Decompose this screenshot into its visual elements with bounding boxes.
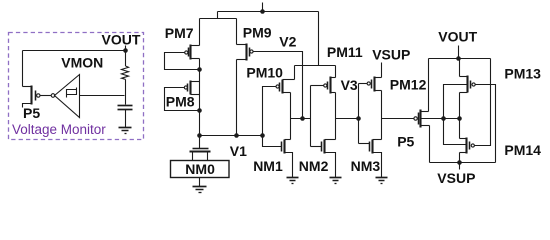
- wire: resistor to capacitor node: [125, 79, 127, 104]
- wire: V2 riser to PM11 gate / NM2 gate: [310, 86, 312, 147]
- svg-text:Voltage Monitor: Voltage Monitor: [12, 122, 106, 137]
- transistor P5 (output pass PMOS with bulk tap): [414, 110, 460, 128]
- node V1 rail: [200, 135, 263, 137]
- transistor NM2: [311, 140, 336, 178]
- transistor PM14 (mirrored, gate right): [460, 138, 475, 154]
- wire: P5 source drop: [22, 51, 24, 87]
- junction dot on top rail: [260, 9, 265, 14]
- wire: rail step down to PM7/PM9 tie: [217, 12, 219, 19]
- wire: monitor top rail: [23, 50, 126, 52]
- wire: VOUT stem to top rail (monitor): [125, 46, 127, 51]
- ground (NM1): [287, 178, 299, 184]
- svg-text:VOUT: VOUT: [102, 32, 141, 48]
- wire: P5 drain down to VSUP rail: [429, 126, 431, 163]
- junction dot V1/PM10 gate: [260, 133, 265, 138]
- svg-text:VSUP: VSUP: [437, 170, 475, 186]
- node VSUP rail (output): [430, 162, 496, 164]
- transistor PM7: [185, 45, 200, 60]
- svg-text:VMON: VMON: [61, 54, 103, 70]
- wire: VSUP stub to PM12 source: [381, 63, 383, 78]
- wire: PM13 gate to VSUP rail (right drop): [476, 85, 496, 163]
- transistor PM11: [324, 77, 336, 94]
- wire: rail down right side: [318, 12, 320, 66]
- wire: PM12 gate to V3 riser: [359, 83, 368, 85]
- svg-text:PM9: PM9: [243, 25, 272, 41]
- svg-text:P5: P5: [397, 133, 414, 149]
- wire: PM9 gate to V2 (node V2 riser): [254, 52, 303, 119]
- transistor NM0 (MOS cap, rotated): [190, 149, 211, 161]
- wire: comparator output to P5 gate: [41, 95, 52, 97]
- junction dot V2: [300, 116, 305, 121]
- Voltage Monitor block dashed border: [9, 33, 144, 140]
- wire: VOUT label stub: [458, 46, 460, 59]
- wire: PM11 source drop: [335, 66, 337, 78]
- ground (NM2): [330, 178, 342, 184]
- svg-text:PM10: PM10: [246, 65, 283, 81]
- svg-text:PM8: PM8: [166, 93, 195, 109]
- transistor PM9 (mirrored): [237, 44, 254, 61]
- wire: top supply rail: [218, 11, 319, 13]
- junction dot P5 bulk rail: [441, 116, 446, 121]
- node VOUT rail (output): [429, 58, 491, 60]
- wire: PM12 drain / NM3 drain column: [381, 91, 383, 140]
- junction dot V3: [356, 116, 361, 121]
- wire: NM0 gate stub: [199, 136, 201, 149]
- transistor NM1: [263, 136, 293, 178]
- wire: node P5 from PM12/NM3 drains to P5 gate: [382, 118, 414, 120]
- svg-text:VOUT: VOUT: [438, 28, 477, 44]
- wire: PM11 gate to V2 riser: [311, 85, 324, 87]
- wire: PM14 gate to VOUT rail (right drop): [475, 59, 491, 146]
- transistor PM8: [184, 81, 199, 95]
- wire: node V3 stub: [336, 118, 359, 120]
- svg-text:V2: V2: [279, 34, 296, 50]
- junction dot PM13/PM14 midpoint: [457, 116, 462, 121]
- transistor PM13 (mirrored, gate right): [460, 76, 476, 93]
- ground (NM0): [193, 187, 207, 193]
- svg-text:PM7: PM7: [165, 25, 194, 41]
- ground (monitor capacitor): [119, 128, 132, 134]
- wire: PM9 source drop: [236, 19, 238, 45]
- svg-text:NM3: NM3: [351, 158, 381, 174]
- wire: PM9 drain down to V1 rail: [236, 60, 238, 136]
- svg-text:VSUP: VSUP: [372, 47, 410, 63]
- transistor P5 (monitor block PMOS): [23, 86, 41, 108]
- wire: VOUT down to resistor: [125, 51, 127, 67]
- wire: PM10 drain / NM1 drain column: [290, 93, 292, 140]
- NM0 source/drain tie box: [171, 161, 230, 178]
- ground (NM3): [376, 178, 388, 184]
- junction dot PM7 drain / PM8 source: [197, 67, 202, 72]
- svg-text:NM1: NM1: [253, 158, 283, 174]
- wire: PM8 gate diode loop: [165, 88, 200, 111]
- svg-text:PM12: PM12: [390, 77, 427, 93]
- junction dot V1/PM8: [197, 133, 202, 138]
- wire: node V2 horizontal: [291, 118, 311, 120]
- wire: PM13 source from VOUT rail: [459, 59, 461, 77]
- wire: PM13 drain / PM14 source column: [459, 93, 461, 139]
- wire: V3 riser to PM12 gate / NM3 gate: [358, 84, 360, 144]
- transistor NM3: [359, 140, 382, 178]
- wire: VSUP label stub: [459, 163, 461, 170]
- wire: PM7-PM9 source tie rail: [200, 18, 237, 20]
- junction dot V1/PM9: [234, 133, 239, 138]
- wire: PM7 drain / PM8 column: [199, 59, 201, 136]
- junction dot at VOUT / top wire: [123, 48, 128, 53]
- wire: comparator input from divider node: [80, 95, 125, 97]
- svg-text:PM11: PM11: [327, 44, 363, 60]
- svg-text:V3: V3: [341, 77, 358, 93]
- op-amp VMON comparator triangle with inverting bubble: [51, 75, 79, 118]
- wire: PM10/PM11 source tie: [295, 65, 336, 67]
- svg-text:P5: P5: [23, 105, 40, 121]
- wire: PM13 bulk to midpoint rail: [444, 85, 468, 145]
- svg-text:PM14: PM14: [504, 142, 541, 158]
- capacitor C (monitor): [118, 106, 133, 128]
- svg-text:PM13: PM13: [504, 65, 541, 81]
- transistor PM12: [367, 77, 381, 92]
- svg-text:V1: V1: [230, 143, 247, 159]
- wire: NM0 box to ground: [199, 178, 201, 187]
- wire: P5 source up to VOUT rail: [428, 59, 430, 112]
- wire: PM10 gate to V1: [263, 87, 276, 136]
- junction dot VSUP: [457, 160, 462, 165]
- transistor PM10: [276, 80, 295, 94]
- wire: PM14 drain to VSUP rail: [459, 153, 461, 163]
- wire: PM7 source drop: [199, 19, 201, 46]
- svg-text:NM0: NM0: [185, 161, 215, 177]
- wire: supply stub up: [262, 3, 264, 12]
- hysteresis glyph inside VMON: [67, 88, 77, 98]
- svg-text:NM2: NM2: [299, 158, 329, 174]
- junction dot PM8 drain / gate loop: [197, 108, 202, 113]
- resistor (monitor divider): [122, 66, 129, 79]
- wire: PM10 source drop: [294, 66, 296, 80]
- junction dot VOUT: [456, 56, 461, 61]
- wire: PM7 gate diode loop: [165, 53, 200, 70]
- wire: PM11 drain / NM2 drain column: [335, 93, 337, 140]
